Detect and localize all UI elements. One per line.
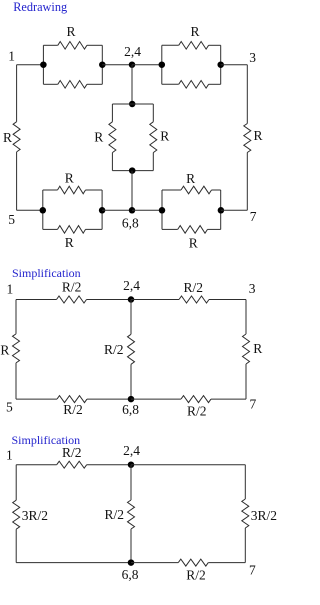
wire top edge (third circuit) [16,464,57,466]
wire node 2,4 to right pair [132,64,162,66]
resistor R/2 (bottom-left) [57,396,87,403]
wire top edge right [131,299,179,301]
svg-text:R: R [65,171,74,186]
svg-text:R: R [254,128,263,143]
wire right parallel pair frame [162,44,179,46]
wire left edge [15,300,17,334]
junction dot 6,8 (second circuit) [128,396,135,403]
resistor R/2 (middle vertical) [128,334,135,364]
svg-text:2,4: 2,4 [123,443,140,458]
svg-text:R: R [190,24,199,39]
wire right vertical upper [246,65,248,124]
resistor R (upper of bottom-left parallel pair) [58,186,86,194]
resistor R/2 (top-right) [179,296,209,303]
junction dot node 6,8 [129,207,136,214]
junction dot 2,4 (second circuit) [128,296,135,303]
wire middle pair down to node 6,8 [131,171,133,211]
wire middle parallel pair frame [112,103,153,105]
svg-text:2,4: 2,4 [123,278,140,293]
svg-text:R: R [186,171,195,186]
svg-text:R/2: R/2 [62,445,82,460]
resistor R (right of middle parallel pair) [150,122,157,153]
wire middle vertical [130,300,132,335]
resistor R/2 (middle vertical, third circuit) [128,500,135,529]
wire bottom-left pair to node 6,8 [102,209,132,211]
resistor R (right vertical, second circuit) [243,334,250,364]
resistor 3R/2 (right vertical) [242,499,249,528]
svg-text:R: R [189,236,198,251]
resistor R (lower of right parallel pair) [179,81,209,89]
resistor R/2 (bottom-right, third circuit) [178,559,208,566]
wire right edge (third circuit) [244,465,246,499]
svg-text:6,8: 6,8 [122,567,139,582]
wire middle vertical (third circuit) [130,465,132,500]
junction dot 2,4 (third circuit) [128,461,135,468]
junction dot left of bottom-left pair [40,207,47,214]
wire right vertical lower [246,153,248,211]
resistor 3R/2 (left vertical) [13,500,20,529]
svg-text:R: R [253,341,262,356]
svg-text:R/2: R/2 [104,507,124,522]
wire bottom-left pair frame [43,189,58,191]
wire bottom edge left plain (third circuit) [16,562,131,564]
wire left pair to node 2,4 [102,64,132,66]
resistor R (upper of right parallel pair) [179,42,209,50]
svg-text:6,8: 6,8 [122,402,139,417]
resistor R (right vertical) [244,124,251,153]
wire bottom-right pair frame [162,189,181,191]
svg-text:3R/2: 3R/2 [251,508,277,523]
svg-text:R: R [160,129,169,144]
svg-text:3: 3 [249,50,256,65]
svg-text:R/2: R/2 [63,402,83,417]
svg-text:7: 7 [250,209,257,224]
svg-text:R: R [65,235,74,250]
wire node 2,4 down to middle pair [131,65,133,104]
wire bottom edge right [131,398,181,400]
svg-text:5: 5 [6,400,13,415]
svg-text:R: R [94,129,103,144]
resistor R (left of middle parallel pair) [109,122,116,153]
wire node1 corner to left parallel pair [17,64,44,66]
junction dot left of right pair [159,61,166,68]
svg-text:7: 7 [249,563,256,578]
svg-text:3R/2: 3R/2 [22,508,48,523]
svg-text:2,4: 2,4 [124,44,141,59]
junction dot right of right pair [217,61,224,68]
wire right edge [245,300,247,335]
wire top edge right plain (third circuit) [131,464,245,466]
junction dot right of left pair [99,61,106,68]
wire node 6,8 to bottom-right pair [132,209,162,211]
junction dot left of left pair [40,61,47,68]
svg-text:1: 1 [6,447,13,462]
svg-text:Redrawing: Redrawing [13,0,67,14]
resistor R (left vertical) [13,122,20,152]
resistor R (lower of bottom-right parallel pair) [178,226,208,234]
wire bottom edge left [16,398,57,400]
svg-text:R: R [0,343,9,358]
svg-text:5: 5 [8,212,15,227]
svg-text:R/2: R/2 [183,280,203,295]
wire top edge left [16,299,57,301]
svg-text:1: 1 [8,49,15,64]
svg-text:Simplification: Simplification [12,266,81,280]
resistor R/2 (top, third circuit) [57,461,87,468]
junction dot top of middle pair [129,101,136,108]
wire bottom edge right (third circuit) [131,562,178,564]
resistor R (upper of left parallel pair) [58,42,87,50]
resistor R (lower of left parallel pair) [58,81,87,89]
svg-text:R/2: R/2 [187,403,207,418]
resistor R/2 (top-left) [57,296,87,303]
resistor R (upper of bottom-right parallel pair) [181,186,212,194]
svg-text:7: 7 [250,397,257,412]
svg-text:R: R [66,24,75,39]
wire left vertical lower [16,152,18,210]
resistor R/2 (bottom-right) [181,396,211,403]
junction dot left of bottom-right pair [159,207,166,214]
junction dot right of bottom-left pair [99,207,106,214]
svg-text:R/2: R/2 [104,342,124,357]
resistor R (lower of bottom-left parallel pair) [58,226,86,234]
svg-text:R: R [3,130,12,145]
svg-text:R/2: R/2 [186,568,206,583]
junction dot right of bottom-right pair [218,207,225,214]
wire bottom-right pair to node 7 corner [221,209,248,211]
wire left edge (third circuit) [15,465,17,501]
svg-text:R/2: R/2 [62,279,82,294]
junction dot bottom of middle pair [129,167,136,174]
svg-text:1: 1 [6,281,13,296]
wire left vertical upper [16,65,18,122]
wire left parallel pair frame [43,44,57,46]
svg-text:3: 3 [249,281,256,296]
junction dot 6,8 (third circuit) [128,559,135,566]
junction dot node 2,4 [129,61,136,68]
svg-text:6,8: 6,8 [122,215,139,230]
resistor R (left vertical, second circuit) [13,334,20,363]
wire right pair to node 3 corner [221,64,248,66]
wire node5 corner to bottom-left pair [17,209,43,211]
